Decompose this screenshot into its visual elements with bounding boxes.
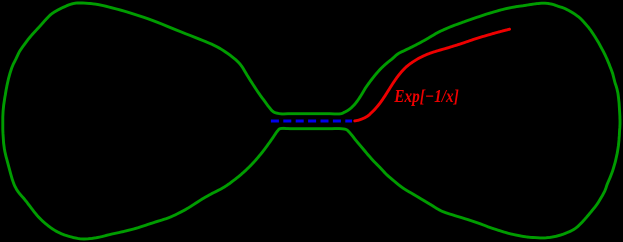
svg-text:Exp[−1/x]: Exp[−1/x] bbox=[393, 86, 459, 106]
red curve Exp[-1/x] bbox=[355, 29, 510, 121]
blue dashed zero segment (x-axis) bbox=[271, 120, 352, 123]
